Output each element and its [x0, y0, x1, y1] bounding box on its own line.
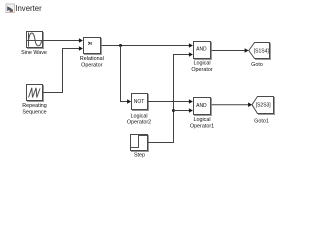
svg-text:AND: AND: [196, 103, 207, 109]
wire NOT to Logical Operator1: [148, 99, 193, 104]
svg-text:Step: Step: [134, 152, 145, 158]
svg-text:Relational: Relational: [80, 56, 104, 62]
svg-text:Sequence: Sequence: [22, 109, 46, 115]
block NOT Logical Operator2: [132, 94, 150, 112]
wire Step up to Logical Operator input 2: [148, 52, 193, 142]
block AND Logical Operator: [194, 42, 213, 61]
svg-text:Goto1: Goto1: [254, 118, 269, 124]
svg-text:AND: AND: [196, 47, 207, 53]
svg-text:Operator1: Operator1: [190, 124, 214, 130]
svg-text:Operator2: Operator2: [127, 120, 151, 126]
node junction on Step line: [172, 109, 175, 112]
block Step: [131, 135, 150, 153]
svg-text:Operator: Operator: [191, 67, 212, 73]
block Sine Wave: [27, 32, 45, 50]
wire Step branch to Logical Operator1 input 2: [174, 108, 193, 113]
svg-text:[S2S3]: [S2S3]: [256, 103, 272, 109]
block Goto1: [252, 97, 275, 116]
node junction on Relational Operator output: [119, 44, 122, 47]
svg-text:Logical: Logical: [130, 113, 147, 119]
svg-text:Repeating: Repeating: [22, 103, 47, 109]
block Relational Operator: [84, 38, 103, 56]
block Repeating Sequence: [27, 85, 45, 103]
svg-text:Operator: Operator: [81, 62, 102, 68]
svg-text:Logical: Logical: [193, 61, 210, 67]
svg-text:Logical: Logical: [193, 117, 210, 123]
wire Relational Operator to Logical Operator: [102, 43, 193, 48]
wire Sine Wave to Relational Operator: [43, 38, 83, 43]
wire Logical Operator1 to Goto1: [212, 102, 253, 107]
svg-text:NOT: NOT: [134, 99, 145, 105]
block AND Logical Operator1: [194, 98, 213, 117]
svg-text:Sine Wave: Sine Wave: [21, 50, 47, 56]
model icon: [6, 4, 15, 13]
wire branch down to NOT: [121, 46, 132, 104]
svg-text:Inverter: Inverter: [15, 4, 42, 13]
wire Logical Operator to Goto: [212, 48, 249, 53]
svg-text:[S1S4]: [S1S4]: [254, 48, 270, 54]
wire Repeating Sequence to Relational Operator: [43, 46, 83, 92]
block Goto: [249, 43, 271, 61]
svg-text:Goto: Goto: [251, 62, 263, 68]
